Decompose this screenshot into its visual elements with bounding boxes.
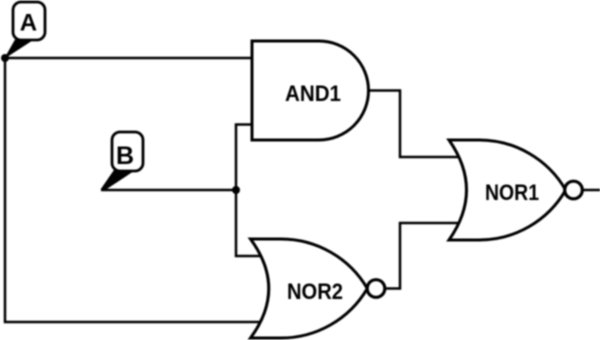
nor-gate NOR2 inversion bubble	[367, 280, 385, 298]
nor-gate NOR1 inversion bubble	[565, 181, 583, 199]
net label A bubble	[13, 2, 45, 40]
and-gate AND1 body	[252, 41, 369, 140]
nor-gate NOR2 body	[251, 239, 368, 338]
net label A tail	[4, 40, 33, 60]
wire net A horizontal to AND1 input 1	[5, 57, 254, 60]
svg-text:NOR2: NOR2	[287, 279, 343, 304]
wire net A left rail down and along bottom to NOR2 input 2	[5, 58, 261, 322]
wire net B junction up to AND1 input 2	[236, 125, 253, 191]
wire AND1 output to NOR1 input 1	[366, 91, 461, 158]
wire net B horizontal from label B to junction	[101, 189, 236, 192]
node A junction dot	[1, 54, 9, 62]
svg-text:A: A	[20, 10, 37, 37]
wire NOR2 output to NOR1 input 2	[384, 223, 461, 289]
svg-text:AND1: AND1	[285, 81, 341, 106]
node B junction dot	[232, 186, 240, 194]
wire NOR1 output to right edge	[583, 189, 600, 192]
svg-text:NOR1: NOR1	[485, 180, 539, 205]
nor-gate NOR1 body	[449, 140, 566, 240]
net label B tail	[101, 169, 133, 191]
svg-text:B: B	[116, 142, 134, 170]
net label B bubble	[112, 132, 143, 171]
wire net B junction down to NOR2 input 1	[236, 190, 262, 256]
